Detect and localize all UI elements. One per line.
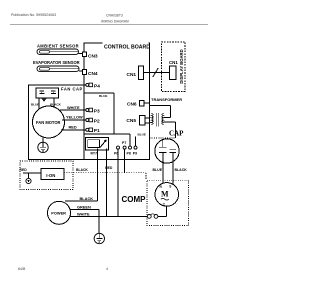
svg-text:CN6: CN6 bbox=[127, 102, 137, 108]
svg-text:EVAPORATOR SENSOR: EVAPORATOR SENSOR bbox=[33, 60, 80, 65]
transformer bbox=[152, 114, 154, 125]
svg-text:P8: P8 bbox=[127, 152, 131, 156]
svg-text:P3: P3 bbox=[94, 108, 100, 114]
ion generator enclosure bbox=[20, 161, 73, 190]
svg-text:CN5: CN5 bbox=[126, 118, 136, 124]
svg-text:P4: P4 bbox=[94, 83, 100, 89]
svg-text:FAN MOTOR: FAN MOTOR bbox=[36, 120, 61, 125]
svg-text:CRA038T3: CRA038T3 bbox=[106, 14, 123, 18]
inner block on control board bbox=[84, 92, 114, 94]
wire cap black to compressor bbox=[172, 153, 174, 185]
pin P8 bbox=[129, 146, 132, 149]
svg-text:BLUE: BLUE bbox=[99, 94, 107, 98]
wire fan cap black bbox=[53, 98, 55, 109]
terminal P1 bbox=[86, 128, 89, 131]
compressor enclosure bbox=[147, 180, 189, 225]
wire green (power) bbox=[70, 209, 99, 211]
terminal P2 bbox=[86, 119, 89, 122]
svg-text:FAN CAP: FAN CAP bbox=[61, 87, 83, 92]
dotted wire board to cap bbox=[150, 137, 176, 139]
wire P6 down to neutral bbox=[117, 149, 119, 216]
svg-text:BLACK: BLACK bbox=[76, 168, 88, 172]
terminal P4 bbox=[86, 83, 89, 86]
pin P6 bbox=[117, 146, 120, 149]
ion emitter bbox=[26, 178, 31, 183]
svg-text:CN1: CN1 bbox=[169, 60, 178, 65]
evaporator sensor probe bbox=[37, 66, 79, 71]
control board label bbox=[103, 42, 149, 49]
svg-text:P1: P1 bbox=[94, 128, 100, 134]
wire relay to white neutral bbox=[106, 149, 108, 217]
svg-text:YELLOW: YELLOW bbox=[66, 115, 83, 120]
wire red fan motor to P1 bbox=[61, 129, 86, 131]
svg-text:COMP: COMP bbox=[122, 195, 147, 204]
connector CN4 bbox=[83, 70, 87, 75]
header rule bbox=[10, 24, 208, 26]
svg-text:CONTROL BOARD: CONTROL BOARD bbox=[104, 44, 150, 50]
wire fan cap blue bbox=[38, 98, 40, 110]
wire evaporator sensor to CN4 bbox=[79, 70, 83, 72]
svg-text:CN3: CN3 bbox=[88, 54, 98, 60]
svg-text:AMBIENT SENSOR: AMBIENT SENSOR bbox=[37, 44, 79, 49]
svg-text:WIRING DIAGRAM: WIRING DIAGRAM bbox=[101, 19, 129, 23]
wire yellow fan motor to P2 bbox=[62, 119, 86, 121]
svg-text:CN1: CN1 bbox=[127, 72, 137, 78]
wire fan cap to P4 (fan box top edge) bbox=[29, 84, 87, 86]
svg-text:RY7: RY7 bbox=[91, 152, 98, 156]
fan capacitor bbox=[36, 88, 59, 98]
wire black (power) bbox=[65, 200, 98, 202]
svg-text:M: M bbox=[161, 190, 169, 199]
svg-text:I-ON: I-ON bbox=[46, 173, 55, 178]
svg-text:BLACK: BLACK bbox=[175, 168, 188, 172]
dashed wire ion to P7 bbox=[64, 172, 146, 174]
svg-text:POWER: POWER bbox=[51, 210, 66, 215]
svg-text:CN4: CN4 bbox=[88, 71, 98, 77]
svg-text:S: S bbox=[169, 184, 171, 188]
svg-text:4: 4 bbox=[106, 267, 108, 271]
wire CN1 to display board bbox=[150, 72, 162, 74]
svg-text:BLUE: BLUE bbox=[31, 103, 39, 107]
svg-text:P2: P2 bbox=[94, 118, 100, 124]
wire relay to black power bbox=[97, 149, 99, 202]
transformer secondary loop bbox=[150, 105, 171, 107]
wire P7 down bbox=[124, 149, 126, 173]
wire blue to pin P9 bbox=[135, 137, 137, 147]
ground (fan motor) bbox=[38, 142, 48, 152]
svg-text:P9: P9 bbox=[133, 152, 137, 156]
relay RY7 bbox=[86, 137, 109, 150]
compressor motor M bbox=[155, 183, 179, 207]
fan motor bbox=[33, 106, 65, 138]
wire white (power) bbox=[70, 215, 148, 217]
wire inner block to pin P8 bbox=[129, 134, 131, 146]
cable slash mark bbox=[153, 68, 158, 77]
power cord bbox=[48, 201, 71, 224]
fan cap label bbox=[60, 86, 84, 91]
svg-text:BLUE: BLUE bbox=[138, 133, 146, 137]
display board bbox=[161, 42, 185, 92]
svg-text:GREEN: GREEN bbox=[77, 204, 91, 209]
svg-text:64/B: 64/B bbox=[18, 267, 26, 271]
connector CN3 bbox=[83, 52, 87, 57]
run capacitor CAP bbox=[155, 139, 179, 163]
svg-text:DISPLAY BOARD: DISPLAY BOARD bbox=[179, 49, 184, 83]
svg-text:RED: RED bbox=[20, 168, 28, 172]
wire overload to C terminal bbox=[158, 215, 167, 217]
transformer primary wires bbox=[150, 117, 152, 119]
ion generator I-ON bbox=[41, 169, 64, 180]
svg-text:RED: RED bbox=[69, 124, 77, 129]
terminal P3 bbox=[86, 109, 89, 112]
fan cap arrow bbox=[41, 98, 47, 102]
svg-text:TRANSFORMER: TRANSFORMER bbox=[151, 97, 182, 102]
svg-text:WHITE: WHITE bbox=[77, 211, 90, 216]
svg-text:CAP: CAP bbox=[169, 130, 184, 138]
svg-text:BLACK: BLACK bbox=[80, 196, 94, 201]
pin P7 bbox=[123, 146, 126, 149]
wire cap blue to compressor bbox=[162, 153, 164, 184]
ground (power) bbox=[94, 233, 104, 243]
ambient sensor probe bbox=[37, 49, 79, 54]
fan motor ground wire bbox=[42, 138, 44, 143]
svg-text:BLUE: BLUE bbox=[153, 168, 163, 172]
wire ambient sensor to CN3 bbox=[79, 53, 83, 55]
fan assembly box bbox=[29, 85, 85, 160]
svg-text:Publication No. 5995524063: Publication No. 5995524063 bbox=[11, 13, 56, 17]
control board outline bbox=[84, 43, 150, 160]
pin P9 bbox=[134, 146, 137, 149]
svg-text:WHITE: WHITE bbox=[67, 105, 80, 110]
wire white fan motor to P3 bbox=[60, 109, 86, 111]
overload protector bbox=[147, 215, 151, 219]
wire red to ion bbox=[23, 172, 41, 174]
svg-text:P7: P7 bbox=[122, 141, 126, 145]
wire green to ground bbox=[98, 210, 100, 234]
